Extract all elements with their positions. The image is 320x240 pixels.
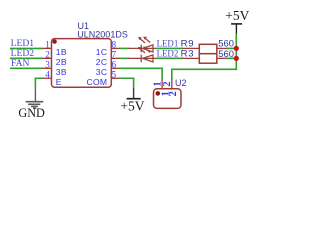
wire pin 6 to U2 pin 1 — [120, 68, 163, 80]
svg-text:GND: GND — [18, 106, 45, 120]
wire LED2 cathode to R3 — [156, 57, 184, 59]
U1 pin 7 stub — [111, 57, 120, 59]
svg-text:3B: 3B — [56, 67, 67, 77]
svg-text:7: 7 — [112, 49, 117, 59]
svg-text:COM: COM — [86, 77, 107, 87]
svg-text:5: 5 — [112, 69, 117, 79]
wire COM pin 5 to +5V — [120, 78, 134, 88]
resistor R9 — [183, 44, 227, 53]
U1 pin 5 stub — [111, 77, 120, 79]
svg-text:2B: 2B — [56, 57, 67, 67]
IC U1 ULN2001DS body — [52, 39, 112, 88]
svg-text:FAN: FAN — [11, 58, 30, 69]
svg-text:1B: 1B — [56, 47, 67, 57]
svg-text:3: 3 — [45, 59, 50, 69]
resistor R3 — [183, 54, 227, 64]
svg-text:8: 8 — [112, 40, 117, 50]
U1 pin 2 stub — [42, 57, 51, 59]
U1 pin 8 stub — [111, 47, 120, 49]
svg-text:+5V: +5V — [225, 8, 249, 23]
svg-text:3C: 3C — [96, 67, 108, 77]
svg-text:1: 1 — [45, 40, 50, 50]
svg-text:1C: 1C — [96, 47, 108, 57]
junction node at R9/+5V rail — [234, 46, 239, 51]
power +5V (bottom, COM) — [127, 88, 141, 99]
wire pin 4 to GND — [35, 78, 43, 89]
wire LED1 cathode to R9 — [156, 47, 184, 49]
U2 pin 1 stub — [161, 80, 163, 89]
wire pin 8 to LED1 anode — [120, 47, 130, 49]
svg-text:U2: U2 — [175, 78, 187, 88]
svg-text:LED2: LED2 — [157, 48, 179, 58]
LED LED2 — [128, 48, 156, 62]
wire FAN net to pin 3 — [10, 67, 43, 69]
svg-text:LED1: LED1 — [157, 38, 179, 48]
power +5V (top right) — [231, 24, 242, 34]
wire pin 7 to LED2 anode — [120, 57, 130, 59]
connector U2 body — [154, 89, 182, 109]
wire LED1 net to pin 1 — [10, 47, 43, 49]
svg-text:2: 2 — [168, 91, 179, 96]
wire R3 to +5V rail — [226, 57, 236, 59]
LED LED1 — [128, 38, 156, 52]
wire +5V rail down to U2 pin 2 — [172, 34, 237, 80]
wire R9 to +5V rail — [226, 47, 236, 49]
U2 pin 2 stub — [171, 80, 173, 89]
junction node at R3/+5V rail — [234, 56, 239, 61]
svg-text:2: 2 — [45, 49, 50, 59]
svg-text:+5V: +5V — [120, 99, 144, 114]
U1 pin 3 stub — [42, 67, 51, 69]
svg-text:4: 4 — [45, 69, 50, 79]
svg-text:2C: 2C — [96, 57, 108, 67]
wire LED2 net to pin 2 — [10, 57, 43, 59]
U1 pin 4 stub — [42, 77, 51, 79]
svg-text:E: E — [56, 77, 62, 87]
svg-text:6: 6 — [112, 59, 117, 69]
svg-text:560: 560 — [218, 48, 234, 59]
U1 pin 6 stub — [111, 67, 120, 69]
svg-text:2: 2 — [162, 81, 173, 86]
U1 pin 1 stub — [42, 47, 51, 49]
ground — [26, 90, 44, 109]
svg-text:ULN2001DS: ULN2001DS — [77, 30, 128, 40]
